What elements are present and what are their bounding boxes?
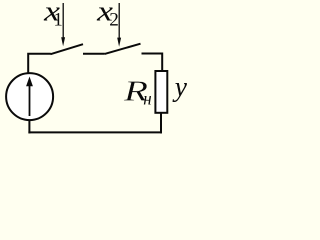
control arrow for switch x1 <box>61 3 65 46</box>
wire: between switches <box>83 53 105 55</box>
label x1 <box>43 0 63 31</box>
svg-text:y: y <box>172 72 187 103</box>
wire: top-left corner (source top to switch x1) <box>28 54 51 75</box>
wire: bottom-right riser to resistor <box>160 113 162 133</box>
svg-text:2: 2 <box>109 11 119 31</box>
svg-text:1: 1 <box>54 11 63 31</box>
label x2 <box>96 0 119 31</box>
label Rn <box>123 77 152 109</box>
switch x1 blade <box>51 44 84 54</box>
current source U1 (circle with upward arrow) <box>6 73 53 120</box>
wire: top-right corner (switch x2 to resistor top) <box>142 54 163 72</box>
switch x2 blade <box>105 44 141 54</box>
wire: bottom return <box>28 131 162 133</box>
svg-text:н: н <box>143 89 151 109</box>
wire: source bottom to bottom-left corner <box>28 120 30 134</box>
control arrow for switch x2 <box>117 3 121 47</box>
resistor Rn body <box>155 71 167 113</box>
